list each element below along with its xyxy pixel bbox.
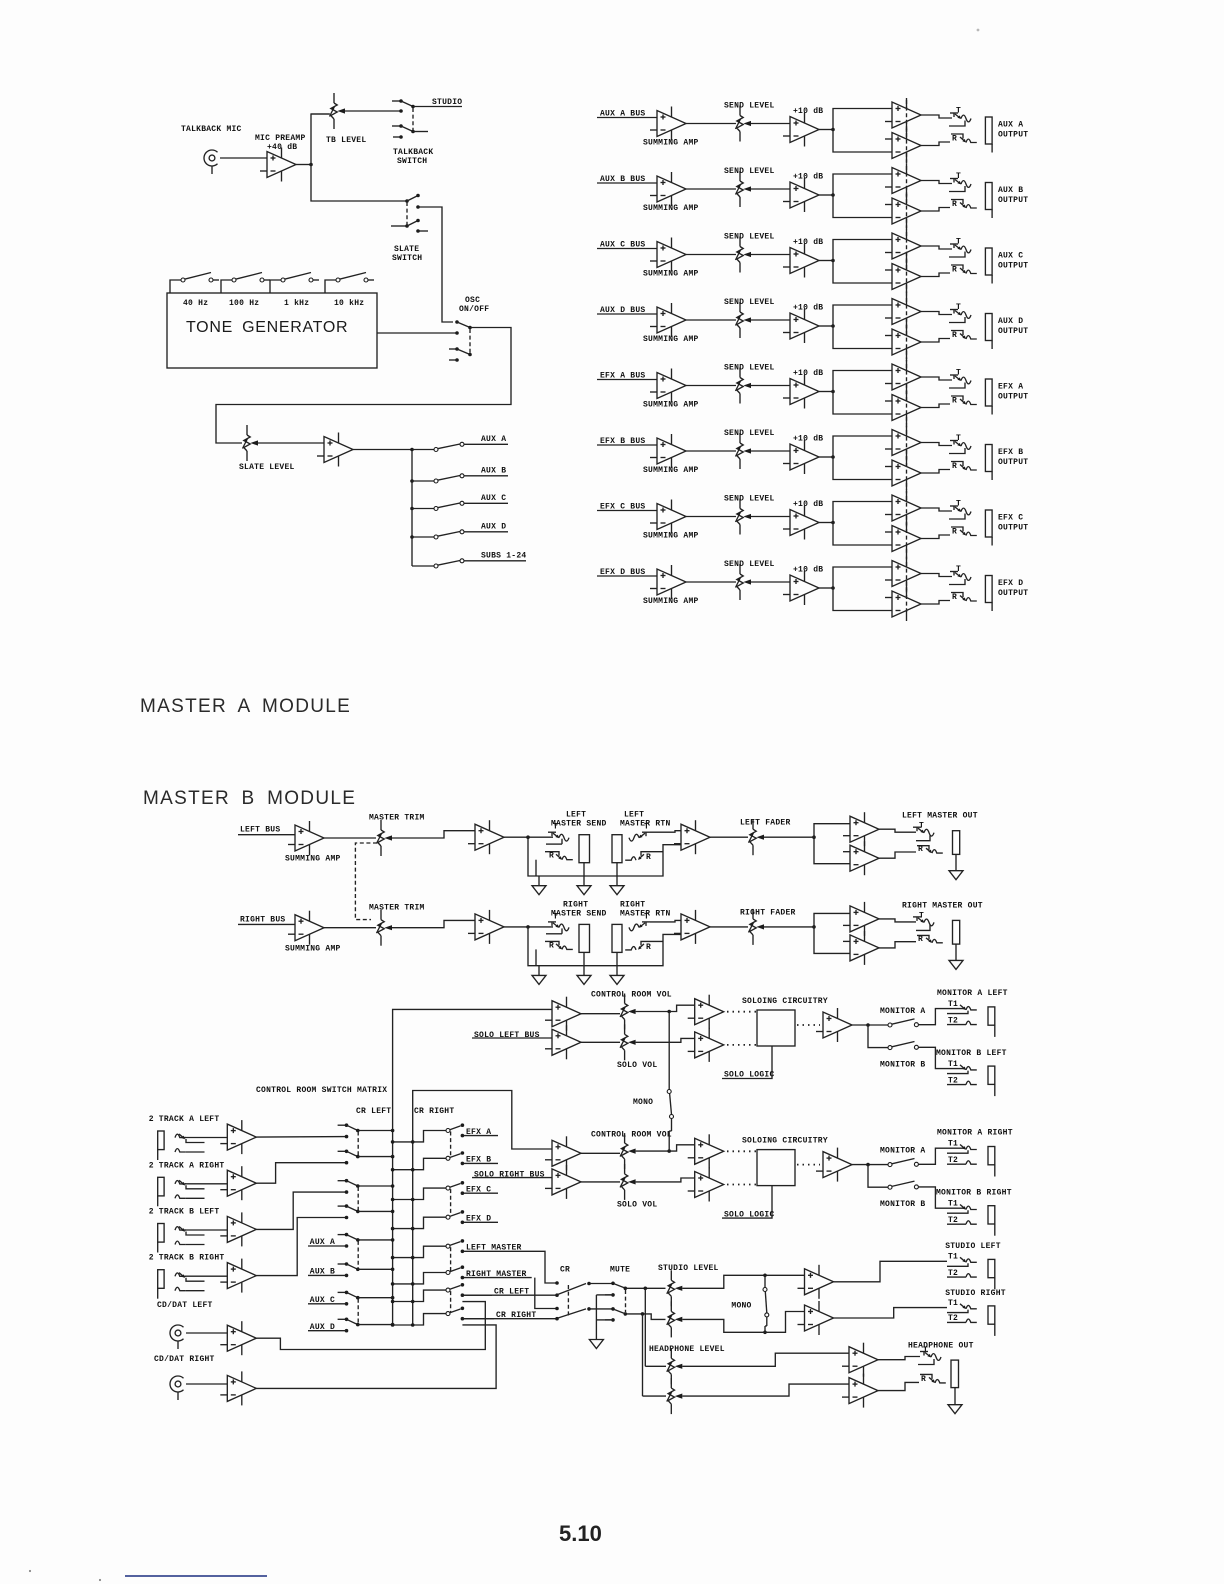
wire output rails RIGHT: [814, 913, 850, 953]
svg-text:MONO: MONO: [731, 1302, 751, 1311]
svg-text:SEND LEVEL: SEND LEVEL: [724, 429, 775, 438]
wire R2 wiper to buffer amp: [258, 442, 324, 444]
svg-text:SUMMING AMP: SUMMING AMP: [643, 597, 699, 606]
wire dotted soloing to monitor amp LEFT: [797, 1024, 820, 1026]
op-amp U24 summing amp row 8: [650, 565, 686, 599]
jack J6 EFX A OUTPUT bracket: [985, 379, 992, 415]
svg-text:MONITOR A: MONITOR A: [880, 1007, 925, 1016]
wire solo amp to solo vol pot RIGHT: [581, 1181, 620, 1183]
switch matrix-left row 6: [338, 1263, 347, 1265]
svg-text:RIGHT BUS: RIGHT BUS: [240, 915, 285, 924]
node output split LEFT: [812, 835, 816, 839]
switch matrix-right EFX C: [446, 1186, 450, 1190]
wire AUX C BUS into summing amp: [597, 248, 657, 250]
op-amp CR mix amp RIGHT: [545, 1136, 581, 1170]
switch matrix-left row 3: [338, 1180, 347, 1182]
wire decorative blue rule (scan artifact): [125, 1575, 267, 1577]
ground under master out RIGHT: [949, 960, 963, 969]
jack MONITOR A RIGHT tip normal: [947, 1150, 968, 1153]
op-amp output driver T master RIGHT: [843, 902, 879, 936]
svg-text:SUMMING AMP: SUMMING AMP: [643, 204, 699, 213]
op-amp output driver R row 1: [885, 129, 921, 163]
svg-text:AUX A: AUX A: [998, 121, 1023, 130]
jack LEFT MASTER OUT ring: [917, 846, 929, 850]
svg-text:T: T: [956, 172, 961, 181]
switch S2 lower pole: [391, 225, 407, 227]
switch S6 tone freq 10 kHz: [325, 280, 336, 293]
switch matrix-left row 1: [338, 1124, 347, 1126]
wire send level wiper to +10dB amp row 4: [751, 319, 790, 321]
switch MONITOR B RIGHT: [888, 1185, 892, 1189]
svg-text:RIGHT: RIGHT: [563, 900, 588, 909]
op-amp output driver R row 6: [885, 456, 921, 490]
svg-text:SOLOING CIRCUITRY: SOLOING CIRCUITRY: [742, 1137, 828, 1146]
op-amp U25 +10dB amp row 8: [783, 571, 819, 605]
jack J3 AUX B OUTPUT bracket: [985, 183, 992, 219]
jack 2 TRACK B LEFT ring contact: [175, 1241, 186, 1244]
svg-text:1 kHz: 1 kHz: [284, 299, 309, 308]
svg-text:T: T: [956, 434, 961, 443]
wire gang dashes matrix-right: [450, 1132, 452, 1158]
potentiometer R7 SEND LEVEL row 5: [736, 368, 752, 404]
wire summing amp to send level row 6: [686, 450, 736, 452]
wire matrix-left row 7 to CR LEFT bus: [358, 1297, 393, 1299]
switch matrix-left row 8: [338, 1318, 347, 1320]
node A preamp output junction: [309, 163, 313, 167]
wire mute pole2 to studio feed: [625, 1314, 665, 1320]
svg-text:RIGHT FADER: RIGHT FADER: [740, 908, 796, 917]
jack J8 EFX C OUTPUT bracket: [985, 510, 992, 546]
switch matrix-right EFX B: [446, 1156, 450, 1160]
wire matrix feed row EFX A: [393, 1131, 446, 1142]
wire MONO link between CR sections: [668, 1012, 670, 1092]
wire matrix-left row 4 to CR LEFT bus: [358, 1210, 393, 1212]
svg-text:TALKBACK: TALKBACK: [393, 148, 433, 157]
wire CD/DAT LEFT to buffer: [186, 1332, 227, 1334]
wire CR RIGHT bus to control room: [413, 1091, 552, 1327]
ground mute: [589, 1340, 603, 1349]
jack tip normal contact row 7: [949, 514, 965, 520]
node split junction row 3: [831, 259, 835, 263]
svg-text:MONITOR B: MONITOR B: [880, 1060, 925, 1069]
wire LEFT bus into summing amp: [238, 834, 295, 836]
potentiometer LEFT FADER: [749, 819, 765, 855]
op-amp headphone amp L: [842, 1343, 878, 1377]
potentiometer MASTER TRIM RIGHT: [377, 910, 393, 946]
svg-text:T: T: [553, 912, 558, 921]
ground under send jack LEFT: [577, 886, 591, 895]
op-amp output driver T row 8: [885, 557, 921, 591]
node mono tap RIGHT: [667, 1149, 671, 1153]
wire +10dB output to split node row 2: [819, 194, 833, 196]
node SUBS 1-24 net label: [464, 560, 526, 562]
svg-text:OUTPUT: OUTPUT: [998, 589, 1028, 598]
wire CR LEFT bus to control room: [393, 1009, 552, 1326]
node split junction row 1: [831, 128, 835, 132]
wire gang dashes matrix-left: [357, 1132, 359, 1156]
svg-text:SUMMING AMP: SUMMING AMP: [643, 532, 699, 541]
switch matrix-right CR RIGHT: [446, 1312, 450, 1316]
wire U2 output to distribution node: [353, 449, 412, 451]
wire R driver to master out jack RIGHT: [879, 942, 916, 948]
wire matrix-left row 5 to CR LEFT bus: [358, 1239, 393, 1241]
svg-text:T: T: [956, 500, 961, 509]
op-amp output driver T row 7: [885, 491, 921, 525]
svg-text:RIGHT: RIGHT: [620, 900, 645, 909]
ground under master out LEFT: [949, 871, 963, 880]
op-amp output driver T master LEFT: [843, 812, 879, 846]
wire mute to headphone level left: [644, 1288, 646, 1366]
wire T driver to master out jack RIGHT: [879, 919, 916, 922]
node send junction LEFT: [526, 835, 530, 839]
op-amp summing amp master RIGHT: [288, 911, 324, 945]
svg-text:R: R: [952, 397, 957, 406]
svg-text:MASTER SEND: MASTER SEND: [551, 820, 607, 829]
svg-text:CONTROL ROOM VOL: CONTROL ROOM VOL: [591, 1130, 672, 1139]
potentiometer MASTER TRIM LEFT: [377, 820, 393, 856]
op-amp U18 summing amp row 5: [650, 369, 686, 403]
connector J1 talkback mic XLR: [204, 150, 218, 174]
svg-text:SUMMING AMP: SUMMING AMP: [643, 466, 699, 475]
wire split rails row 8: [833, 567, 892, 611]
jack RIGHT MASTER RTN ring: [625, 947, 636, 950]
ground headphone out: [948, 1405, 962, 1414]
wire studio left pot to mono switch: [682, 1275, 804, 1288]
wire CD/DAT RIGHT to buffer: [186, 1383, 227, 1385]
op-amp output driver R master LEFT: [843, 841, 879, 875]
svg-text:OUTPUT: OUTPUT: [998, 262, 1028, 271]
switch S1 talkback (2-pole): [392, 100, 401, 102]
wire CR amp to CR vol pot RIGHT: [581, 1152, 620, 1154]
wire node A up to TB level: [311, 114, 329, 165]
wire S1 common to STUDIO net: [413, 106, 462, 108]
jack J7 EFX B OUTPUT bracket: [985, 445, 992, 481]
svg-text:SEND LEVEL: SEND LEVEL: [724, 364, 775, 373]
wire matrix-left row 2 to CR LEFT bus: [358, 1156, 393, 1158]
svg-text:T: T: [553, 823, 558, 832]
jack LEFT MASTER SEND body: [579, 835, 590, 863]
wire CR vol wiper to monitor amp LEFT: [636, 1011, 670, 1013]
op-amp studio amp R: [798, 1301, 834, 1335]
wire T driver to master out jack LEFT: [879, 829, 916, 832]
svg-text:T1: T1: [948, 1139, 958, 1148]
wire +10dB output to split node row 4: [819, 325, 833, 327]
wire hp amp R to headphone jack R: [878, 1382, 919, 1390]
wire hp right pot to hp amp R: [682, 1384, 849, 1396]
jack 2 TRACK B RIGHT: [158, 1270, 164, 1299]
wire summing amp to send level row 3: [686, 254, 736, 256]
op-amp CR buffer LEFT: [688, 995, 724, 1029]
jack 2 TRACK A RIGHT ring contact: [175, 1195, 186, 1198]
wire R driver to master out jack LEFT: [879, 852, 916, 858]
potentiometer SOLO VOL RIGHT: [620, 1164, 636, 1200]
op-amp U22 summing amp row 7: [650, 500, 686, 534]
svg-text:R: R: [952, 593, 957, 602]
jack RIGHT MASTER SEND ring: [545, 941, 559, 945]
switch MONITOR A LEFT: [888, 1023, 892, 1027]
svg-text:MASTER TRIM: MASTER TRIM: [369, 814, 425, 823]
wire rtn tip to fader amp RIGHT: [650, 920, 681, 922]
svg-text:SLATE LEVEL: SLATE LEVEL: [239, 463, 295, 472]
svg-text:SOLO VOL: SOLO VOL: [617, 1201, 657, 1210]
op-amp fader amp LEFT: [674, 820, 710, 854]
wire split rails row 5: [833, 371, 892, 415]
ground under send bus RIGHT: [538, 966, 540, 976]
block TONE GENERATOR: [167, 293, 377, 368]
wire node A down to slate switch: [311, 165, 407, 202]
node split junction row 2: [831, 193, 835, 197]
svg-text:TALKBACK MIC: TALKBACK MIC: [181, 125, 242, 134]
node split junction row 6: [831, 455, 835, 459]
jack ring contact R row 8: [951, 593, 963, 598]
svg-text:SEND LEVEL: SEND LEVEL: [724, 495, 775, 504]
wire R driver to jack row 3: [921, 273, 950, 277]
svg-text:T: T: [644, 912, 649, 921]
jack ring contact R row 6: [951, 462, 963, 467]
svg-text:SUMMING AMP: SUMMING AMP: [285, 944, 341, 953]
svg-text:OUTPUT: OUTPUT: [998, 196, 1028, 205]
svg-text:CONTROL ROOM VOL: CONTROL ROOM VOL: [591, 991, 672, 1000]
svg-text:R: R: [952, 135, 957, 144]
wire send level wiper to +10dB amp row 1: [751, 123, 790, 125]
svg-text:R: R: [549, 852, 554, 861]
svg-text:SEND LEVEL: SEND LEVEL: [724, 167, 775, 176]
wire line amp to send jack LEFT: [504, 836, 553, 838]
svg-text:MASTER TRIM: MASTER TRIM: [369, 903, 425, 912]
wire gang dash MUTE: [625, 1290, 627, 1312]
wire studio amp R to STUDIO RIGHT jack: [834, 1308, 948, 1318]
svg-text:+10 dB: +10 dB: [793, 369, 823, 378]
svg-text:AUX D: AUX D: [998, 317, 1023, 326]
wire S2 throw to osc switch: [418, 207, 453, 322]
jack RIGHT MASTER OUT ring: [917, 935, 929, 939]
wire +10dB output to split node row 8: [819, 587, 833, 589]
svg-text:CR LEFT: CR LEFT: [356, 1107, 391, 1116]
switch S1 lower pole: [392, 125, 401, 127]
wire mute to headphone level right: [642, 1314, 644, 1396]
svg-text:OUTPUT: OUTPUT: [998, 458, 1028, 467]
wire monitor amp to monitor switches RIGHT: [852, 1164, 888, 1166]
op-amp output driver R row 5: [885, 391, 921, 425]
svg-text:SWITCH: SWITCH: [397, 157, 427, 166]
op-amp output driver R row 4: [885, 325, 921, 359]
svg-text:T: T: [956, 369, 961, 378]
jack STUDIO LEFT tip normal: [947, 1263, 968, 1266]
wire split rails row 1: [833, 109, 892, 153]
potentiometer R8 SEND LEVEL row 6: [736, 433, 752, 469]
svg-text:40 Hz: 40 Hz: [183, 299, 208, 308]
op-amp U1 mic preamp +40dB: [260, 148, 296, 182]
ground under rtn jack RIGHT: [610, 975, 624, 984]
svg-text:MONITOR A RIGHT: MONITOR A RIGHT: [937, 1129, 1013, 1138]
switch CR select pole 2: [555, 1307, 559, 1311]
svg-text:OSC: OSC: [465, 296, 480, 305]
potentiometer R5 SEND LEVEL row 3: [736, 237, 752, 273]
wire master trim wiper to line amp RIGHT: [392, 920, 475, 927]
wire monitor amp to monitor switches LEFT: [852, 1024, 888, 1026]
svg-text:100 Hz: 100 Hz: [229, 299, 259, 308]
svg-text:MASTER B MODULE: MASTER B MODULE: [143, 788, 356, 809]
potentiometer R10 SEND LEVEL row 8: [736, 564, 752, 600]
node split junction row 8: [831, 586, 835, 590]
svg-text:10 kHz: 10 kHz: [334, 299, 364, 308]
op-amp monitor amp RIGHT: [816, 1148, 852, 1182]
svg-text:T1: T1: [948, 1299, 958, 1308]
wire R driver to jack row 6: [921, 470, 950, 474]
jack LEFT MASTER RTN ring: [625, 857, 636, 860]
switch CR select pole 1: [555, 1281, 559, 1285]
svg-text:SWITCH: SWITCH: [392, 254, 422, 263]
svg-text:TB LEVEL: TB LEVEL: [326, 136, 366, 145]
potentiometer STUDIO LEVEL left: [667, 1270, 683, 1306]
svg-text:SUMMING AMP: SUMMING AMP: [643, 401, 699, 410]
svg-text:CONTROL ROOM SWITCH MATRIX: CONTROL ROOM SWITCH MATRIX: [256, 1086, 387, 1095]
jack MONITOR A LEFT tip normal: [947, 1011, 968, 1014]
node send junction RIGHT: [526, 925, 530, 929]
jack J4 AUX C OUTPUT bracket: [985, 248, 992, 284]
wire summing amp to send level row 1: [686, 123, 736, 125]
op-amp solo buffer RIGHT: [688, 1168, 724, 1202]
wire hp left pot to hp amp L: [682, 1353, 849, 1366]
wire 2 TRACK A LEFT to matrix switch: [256, 1136, 346, 1139]
jack J9 EFX D OUTPUT bracket: [985, 576, 992, 612]
gang dashed line through output drivers: [906, 100, 908, 612]
svg-text:+40 dB: +40 dB: [267, 143, 297, 152]
svg-text:R: R: [549, 941, 554, 950]
op-amp U19 +10dB amp row 5: [783, 375, 819, 409]
jack 2 TRACK A RIGHT: [158, 1177, 164, 1206]
svg-text:CD/DAT LEFT: CD/DAT LEFT: [157, 1301, 213, 1310]
switch matrix-right CR LEFT: [446, 1288, 450, 1292]
wire matrix feed row EFX D: [393, 1217, 446, 1228]
svg-text:LEFT BUS: LEFT BUS: [240, 826, 280, 835]
node AUX A net label: [464, 443, 508, 445]
jack MONITOR B RIGHT bracket: [988, 1206, 995, 1236]
wire T driver to jack row 8: [921, 574, 952, 577]
svg-text:CR RIGHT: CR RIGHT: [414, 1107, 454, 1116]
op-amp CD/DAT RIGHT buffer: [220, 1371, 256, 1405]
wire solo vol wiper to solo buffer LEFT: [636, 1038, 695, 1042]
wire send level wiper to +10dB amp row 5: [751, 385, 790, 387]
wire fader wiper to output split RIGHT: [764, 926, 814, 928]
op-amp input buffer 2 TRACK B RIGHT: [220, 1259, 256, 1293]
node scan speck left: [29, 1570, 31, 1572]
svg-text:MIC PREAMP: MIC PREAMP: [255, 134, 306, 143]
jack RIGHT MASTER SEND tip normal: [546, 933, 562, 935]
block SOLOING CIRCUITRY RIGHT: [757, 1150, 795, 1186]
svg-text:T1: T1: [948, 1199, 958, 1208]
jack 2 TRACK A RIGHT tip contact: [175, 1181, 186, 1184]
svg-text:OUTPUT: OUTPUT: [998, 524, 1028, 533]
svg-text:2 TRACK A RIGHT: 2 TRACK A RIGHT: [149, 1161, 225, 1170]
wire matrix feed row EFX C: [393, 1188, 446, 1199]
svg-text:AUX B: AUX B: [998, 186, 1023, 195]
block SOLOING CIRCUITRY LEFT: [757, 1010, 795, 1046]
svg-text:LEFT MASTER OUT: LEFT MASTER OUT: [902, 812, 978, 821]
svg-text:SUMMING AMP: SUMMING AMP: [643, 139, 699, 148]
svg-text:STUDIO: STUDIO: [432, 98, 462, 107]
jack HEADPHONE OUT tip normal: [918, 1359, 934, 1365]
wire matrix feed row EFX B: [393, 1158, 446, 1169]
wire EFX B BUS into summing amp: [597, 444, 657, 446]
node monitor split RIGHT: [866, 1163, 870, 1167]
svg-text:2 TRACK B RIGHT: 2 TRACK B RIGHT: [149, 1254, 225, 1263]
jack LEFT MASTER OUT body: [953, 831, 960, 855]
svg-text:+10 dB: +10 dB: [793, 435, 823, 444]
jack J5 AUX D OUTPUT bracket: [985, 314, 992, 350]
switch S7 lower pole: [449, 348, 457, 350]
wire solo amp to solo vol pot LEFT: [581, 1041, 620, 1043]
switch matrix-left row 5: [338, 1234, 347, 1236]
jack 2 TRACK B RIGHT ring contact: [175, 1287, 186, 1290]
wire CD/DAT LEFT to CR LEFT switch: [256, 1302, 485, 1350]
wire summing amp to send level row 5: [686, 385, 736, 387]
op-amp U17 +10dB amp row 4: [783, 309, 819, 343]
wire EFX C BUS into summing amp: [597, 510, 657, 512]
potentiometer R9 SEND LEVEL row 7: [736, 499, 752, 535]
svg-text:+10 dB: +10 dB: [793, 304, 823, 313]
wire split rails row 3: [833, 240, 892, 284]
wire studio right pot to studio amp R: [682, 1312, 804, 1333]
jack tip normal contact row 1: [949, 121, 965, 127]
wire mute ground hookup: [595, 1295, 597, 1340]
op-amp U11 +10dB amp row 1: [783, 113, 819, 147]
op-amp output driver R row 3: [885, 260, 921, 294]
wire hp amp L to headphone jack T: [878, 1357, 920, 1360]
jack 2 TRACK A LEFT: [158, 1131, 164, 1160]
node monitor split LEFT: [866, 1023, 870, 1027]
wire dotted soloing to monitor amp RIGHT: [797, 1164, 820, 1166]
wire mute pole1 to studio feed: [625, 1287, 665, 1289]
svg-text:AUX C: AUX C: [998, 252, 1023, 261]
switch matrix-right EFX D: [446, 1215, 450, 1219]
op-amp studio amp L: [798, 1265, 834, 1299]
wire +10dB output to split node row 3: [819, 260, 833, 262]
switch MONITOR A RIGHT: [888, 1163, 892, 1167]
potentiometer R6 SEND LEVEL row 4: [736, 302, 752, 338]
jack tip normal contact row 3: [949, 252, 965, 258]
wire RIGHT bus into summing amp: [238, 923, 295, 925]
jack ring contact R row 1: [951, 134, 963, 139]
wire split rails row 6: [833, 436, 892, 480]
jack ring contact R row 4: [951, 331, 963, 336]
op-amp U13 +10dB amp row 2: [783, 178, 819, 212]
wire S7 common to slate-level feed: [216, 328, 511, 444]
potentiometer CONTROL ROOM VOL RIGHT: [620, 1133, 636, 1169]
op-amp U10 summing amp row 1: [650, 107, 686, 141]
wire CD/DAT RIGHT to CR RIGHT switch: [256, 1325, 496, 1389]
jack RIGHT MASTER OUT body: [953, 920, 960, 944]
op-amp fader amp RIGHT: [674, 910, 710, 944]
jack HEADPHONE OUT ring: [920, 1374, 932, 1379]
svg-text:SEND LEVEL: SEND LEVEL: [724, 298, 775, 307]
switch S4 tone freq 100 Hz: [221, 280, 232, 293]
wire T driver to jack row 2: [921, 181, 952, 184]
svg-text:+10 dB: +10 dB: [793, 107, 823, 116]
svg-text:EFX C: EFX C: [998, 514, 1023, 523]
op-amp output driver T row 4: [885, 295, 921, 329]
potentiometer R1 TB LEVEL: [330, 93, 346, 129]
op-amp U21 +10dB amp row 6: [783, 440, 819, 474]
switch S10 slate to AUX C: [410, 507, 414, 511]
switch S1 gang dashed link: [412, 108, 414, 130]
wire R driver to jack row 7: [921, 535, 950, 539]
svg-text:EFX B: EFX B: [998, 448, 1023, 457]
svg-text:HEADPHONE LEVEL: HEADPHONE LEVEL: [649, 1345, 725, 1354]
wire fader amp to fader RIGHT: [710, 926, 748, 928]
wire split rails row 4: [833, 305, 892, 349]
wire J1 to mic preamp: [220, 157, 267, 159]
